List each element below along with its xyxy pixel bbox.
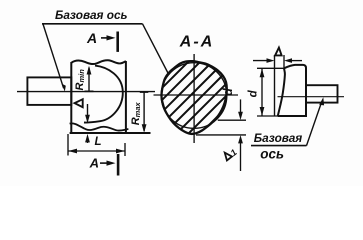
base axis centerline (right figure) bbox=[278, 96, 345, 98]
section vertical centerline bbox=[193, 54, 195, 143]
svg-text:Базовая: Базовая bbox=[254, 131, 303, 145]
rotated-profile arc inside cylinder bbox=[84, 66, 123, 123]
label Rmax (rotated) bbox=[130, 101, 142, 125]
label d (right figure) rotated bbox=[247, 89, 259, 97]
shaft journal (small cylinder, left) bbox=[27, 77, 71, 105]
dimension line Rmin bbox=[88, 68, 90, 92]
leader arrowhead on axis bbox=[62, 84, 66, 92]
svg-text:d: d bbox=[247, 89, 259, 97]
extension line lower (delta1) bbox=[196, 134, 246, 136]
dimension delta1 lower arrow bbox=[240, 142, 242, 171]
dimension delta1 upper arrow bbox=[240, 99, 242, 113]
main cylinder left edge bbox=[70, 62, 72, 133]
svg-text:d: d bbox=[221, 88, 235, 96]
svg-text:Rmax: Rmax bbox=[130, 101, 142, 125]
section mark A (top): view arrow bbox=[101, 37, 109, 39]
label delta (rotated, left figure) bbox=[75, 99, 83, 107]
adjacent circle inside section bbox=[161, 63, 227, 129]
leader arrowhead on axis bbox=[319, 97, 324, 105]
svg-text:А: А bbox=[89, 156, 99, 171]
shaft stub (right figure) bbox=[306, 85, 338, 102]
underline of top label bbox=[42, 23, 143, 25]
leader wire from top label to section A-A bbox=[143, 24, 170, 75]
section horizontal centerline bbox=[154, 94, 239, 96]
svg-text:Базовая ось: Базовая ось bbox=[55, 8, 128, 22]
section mark A (top): cutting-plane bar bbox=[116, 32, 119, 52]
label d (section) rotated bbox=[221, 88, 235, 96]
delta dimension line with outside arrows bbox=[253, 60, 271, 62]
label delta1 (rotated) bbox=[222, 147, 238, 163]
svg-text:Rmin: Rmin bbox=[74, 69, 86, 91]
section mark A (bottom): view arrow bbox=[100, 162, 109, 164]
section mark A (bottom): cutting-plane bar bbox=[117, 154, 120, 176]
svg-text:А: А bbox=[86, 30, 97, 46]
d dimension line with arrows bbox=[261, 68, 263, 116]
L extension line left bbox=[67, 134, 69, 156]
flange block outline bbox=[278, 65, 306, 116]
d top extension line bbox=[257, 67, 284, 69]
delta right extension line bbox=[283, 55, 285, 68]
L extension line right bbox=[124, 143, 126, 156]
dimension line Rmax bbox=[143, 92, 145, 131]
label Rmin (rotated) bbox=[74, 69, 86, 91]
leader wire from top label to left-figure axis bbox=[43, 24, 64, 88]
delta up arrow bbox=[87, 141, 89, 143]
base axis centerline of left figure bbox=[17, 91, 155, 93]
svg-text:ось: ось bbox=[260, 147, 284, 162]
wavy inner bottom line (actual profile) bbox=[70, 123, 129, 130]
leader wire from bottom label to axis bbox=[307, 102, 322, 146]
section hatching bbox=[130, 50, 272, 192]
delta down arrow bbox=[87, 104, 89, 116]
Rmin tick at axis bbox=[85, 90, 94, 92]
main cylinder right edge bbox=[125, 61, 127, 133]
L dimension line with arrows bbox=[68, 150, 125, 152]
underline of bottom label bbox=[251, 145, 307, 147]
section A-A lobed profile outline bbox=[161, 61, 226, 134]
main cylinder wavy top edge (actual profile) bbox=[71, 60, 126, 64]
Rmax tick at axis bbox=[140, 91, 149, 93]
svg-text:L: L bbox=[95, 136, 102, 148]
d bottom extension line bbox=[257, 115, 279, 117]
extension line upper (delta1) bbox=[218, 119, 246, 121]
nominal face line / delta left extension bbox=[274, 55, 276, 116]
main cylinder straight bottom edge extended right bbox=[70, 132, 151, 134]
label delta (right figure) bbox=[275, 48, 282, 56]
flange actual end face (wavy) bbox=[278, 68, 285, 116]
svg-text:А - А: А - А bbox=[179, 33, 212, 50]
